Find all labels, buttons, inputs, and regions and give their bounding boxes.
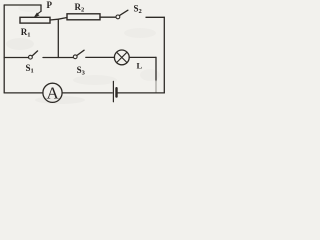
wire battery to right border bbox=[118, 92, 165, 94]
wire lamp branch vertical bbox=[155, 57, 157, 81]
wire bottom left bbox=[4, 92, 43, 94]
switch S3 bbox=[73, 55, 77, 59]
wire S2 to right border bbox=[146, 16, 164, 18]
wire middle row left bbox=[4, 57, 28, 59]
wire top bbox=[4, 4, 41, 6]
rheostat R1 wiper arrow bbox=[37, 11, 41, 14]
paper mottling bbox=[6, 4, 160, 104]
resistor R2 bbox=[67, 14, 100, 20]
wire R1 to junction to R2 bbox=[50, 18, 67, 21]
ammeter A bbox=[43, 83, 62, 102]
wire R2 to S2 bbox=[100, 16, 116, 18]
wire left border bbox=[3, 5, 5, 93]
lamp L bbox=[114, 50, 129, 65]
wire lamp to right branch bbox=[129, 56, 156, 58]
wire ammeter to battery bbox=[62, 92, 112, 94]
wire S1 to S3 bbox=[43, 57, 73, 59]
battery bbox=[112, 81, 114, 102]
wire right border bbox=[163, 17, 165, 93]
switch S2 bbox=[116, 15, 120, 19]
junction branch wire (node between R1 and R2 down to S3 row) bbox=[57, 19, 59, 57]
resistor R1 (rheostat body) bbox=[20, 17, 50, 23]
svg-text:A: A bbox=[47, 83, 60, 102]
switch S1 bbox=[29, 55, 33, 59]
wire wiper drop bbox=[40, 5, 42, 11]
wire S3 to lamp bbox=[86, 56, 115, 58]
svg-text:P: P bbox=[47, 0, 53, 10]
svg-text:L: L bbox=[137, 60, 143, 70]
